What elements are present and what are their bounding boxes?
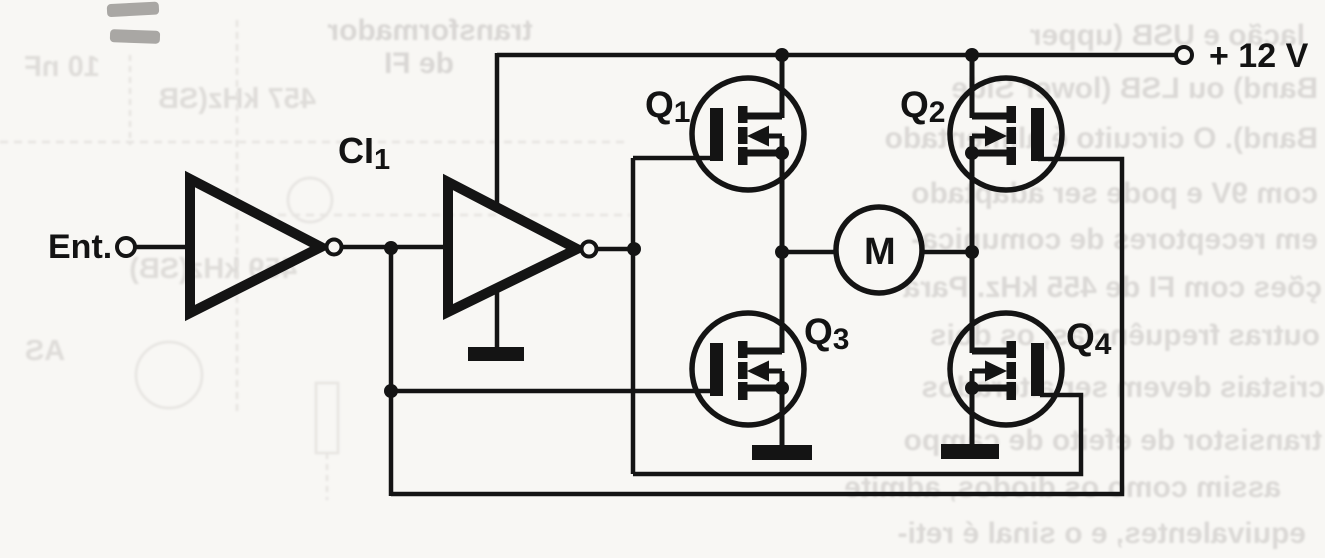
wire Q2 drain bbox=[970, 55, 975, 118]
wire motor right bbox=[920, 250, 972, 255]
wire Q3 drain bbox=[780, 252, 785, 353]
transistor Q2 bbox=[950, 78, 1062, 190]
wire Q4 drain bbox=[970, 252, 975, 353]
node rail-Q2 bbox=[965, 48, 979, 62]
node C bbox=[627, 242, 641, 256]
wire Q3 source bbox=[780, 387, 785, 447]
svg-text:+ 12 V: + 12 V bbox=[1209, 37, 1309, 75]
wire outer bottom bbox=[391, 159, 1122, 494]
wire Q1 drain bbox=[780, 55, 785, 118]
wire to Q3 gate bbox=[391, 389, 716, 394]
svg-text:M: M bbox=[864, 231, 896, 273]
buffer A1 triangle bbox=[190, 179, 321, 313]
ground Q3 bbox=[752, 445, 812, 460]
svg-text:10 nF: 10 nF bbox=[24, 51, 100, 83]
bleed-through mirrored text top/left bbox=[24, 14, 532, 367]
svg-text:AS: AS bbox=[25, 335, 65, 367]
svg-text:outras frequências, os dois: outras frequências, os dois bbox=[930, 319, 1320, 352]
transistor Q1 bbox=[692, 78, 804, 190]
motor M bbox=[836, 207, 922, 293]
terminal input bbox=[117, 238, 135, 256]
wire Q4 source bbox=[970, 387, 975, 448]
wire top +12V rail bbox=[497, 53, 1176, 58]
terminal +12V bbox=[1176, 47, 1192, 63]
wire inner bottom bbox=[633, 395, 1081, 474]
bleed-through circuit marks left bbox=[0, 20, 630, 500]
wire motor left bbox=[782, 250, 838, 255]
svg-text:Ent.: Ent. bbox=[48, 228, 112, 266]
svg-text:ções com FI de 455 kHz. Para: ções com FI de 455 kHz. Para bbox=[903, 271, 1322, 304]
node rail-Q1 bbox=[775, 48, 789, 62]
terminal A1 output bbox=[327, 240, 342, 255]
scanner smudge marks top bbox=[107, 1, 161, 43]
wire node A down bbox=[389, 247, 394, 496]
transistor Q3 bbox=[692, 313, 804, 425]
terminal CI1 output bbox=[582, 242, 597, 257]
wire node C vertical bbox=[631, 158, 636, 474]
svg-text:equivalentes, e o sinal é reti: equivalentes, e o sinal é reti- bbox=[898, 517, 1307, 550]
node B bbox=[384, 384, 398, 398]
svg-text:de FI: de FI bbox=[384, 47, 454, 80]
wire CI power drop bbox=[495, 53, 500, 206]
transistor Q4 bbox=[950, 313, 1062, 425]
node motor right bbox=[965, 245, 979, 259]
wire input bbox=[135, 245, 190, 250]
svg-text:transformador: transformador bbox=[327, 14, 532, 47]
wire Q2 source bbox=[970, 152, 975, 252]
bleed-through mirrored text right column bbox=[844, 19, 1325, 550]
wire to Q1 gate bbox=[633, 156, 716, 161]
ground CI1 bbox=[495, 290, 500, 349]
node A bbox=[384, 241, 398, 255]
wire Q1 source bbox=[780, 152, 785, 252]
wire A1 out bbox=[342, 245, 448, 250]
buffer CI1 triangle bbox=[448, 182, 577, 312]
node motor left bbox=[775, 245, 789, 259]
wire CI1 out bbox=[597, 247, 634, 252]
ground Q4 bbox=[941, 444, 999, 459]
